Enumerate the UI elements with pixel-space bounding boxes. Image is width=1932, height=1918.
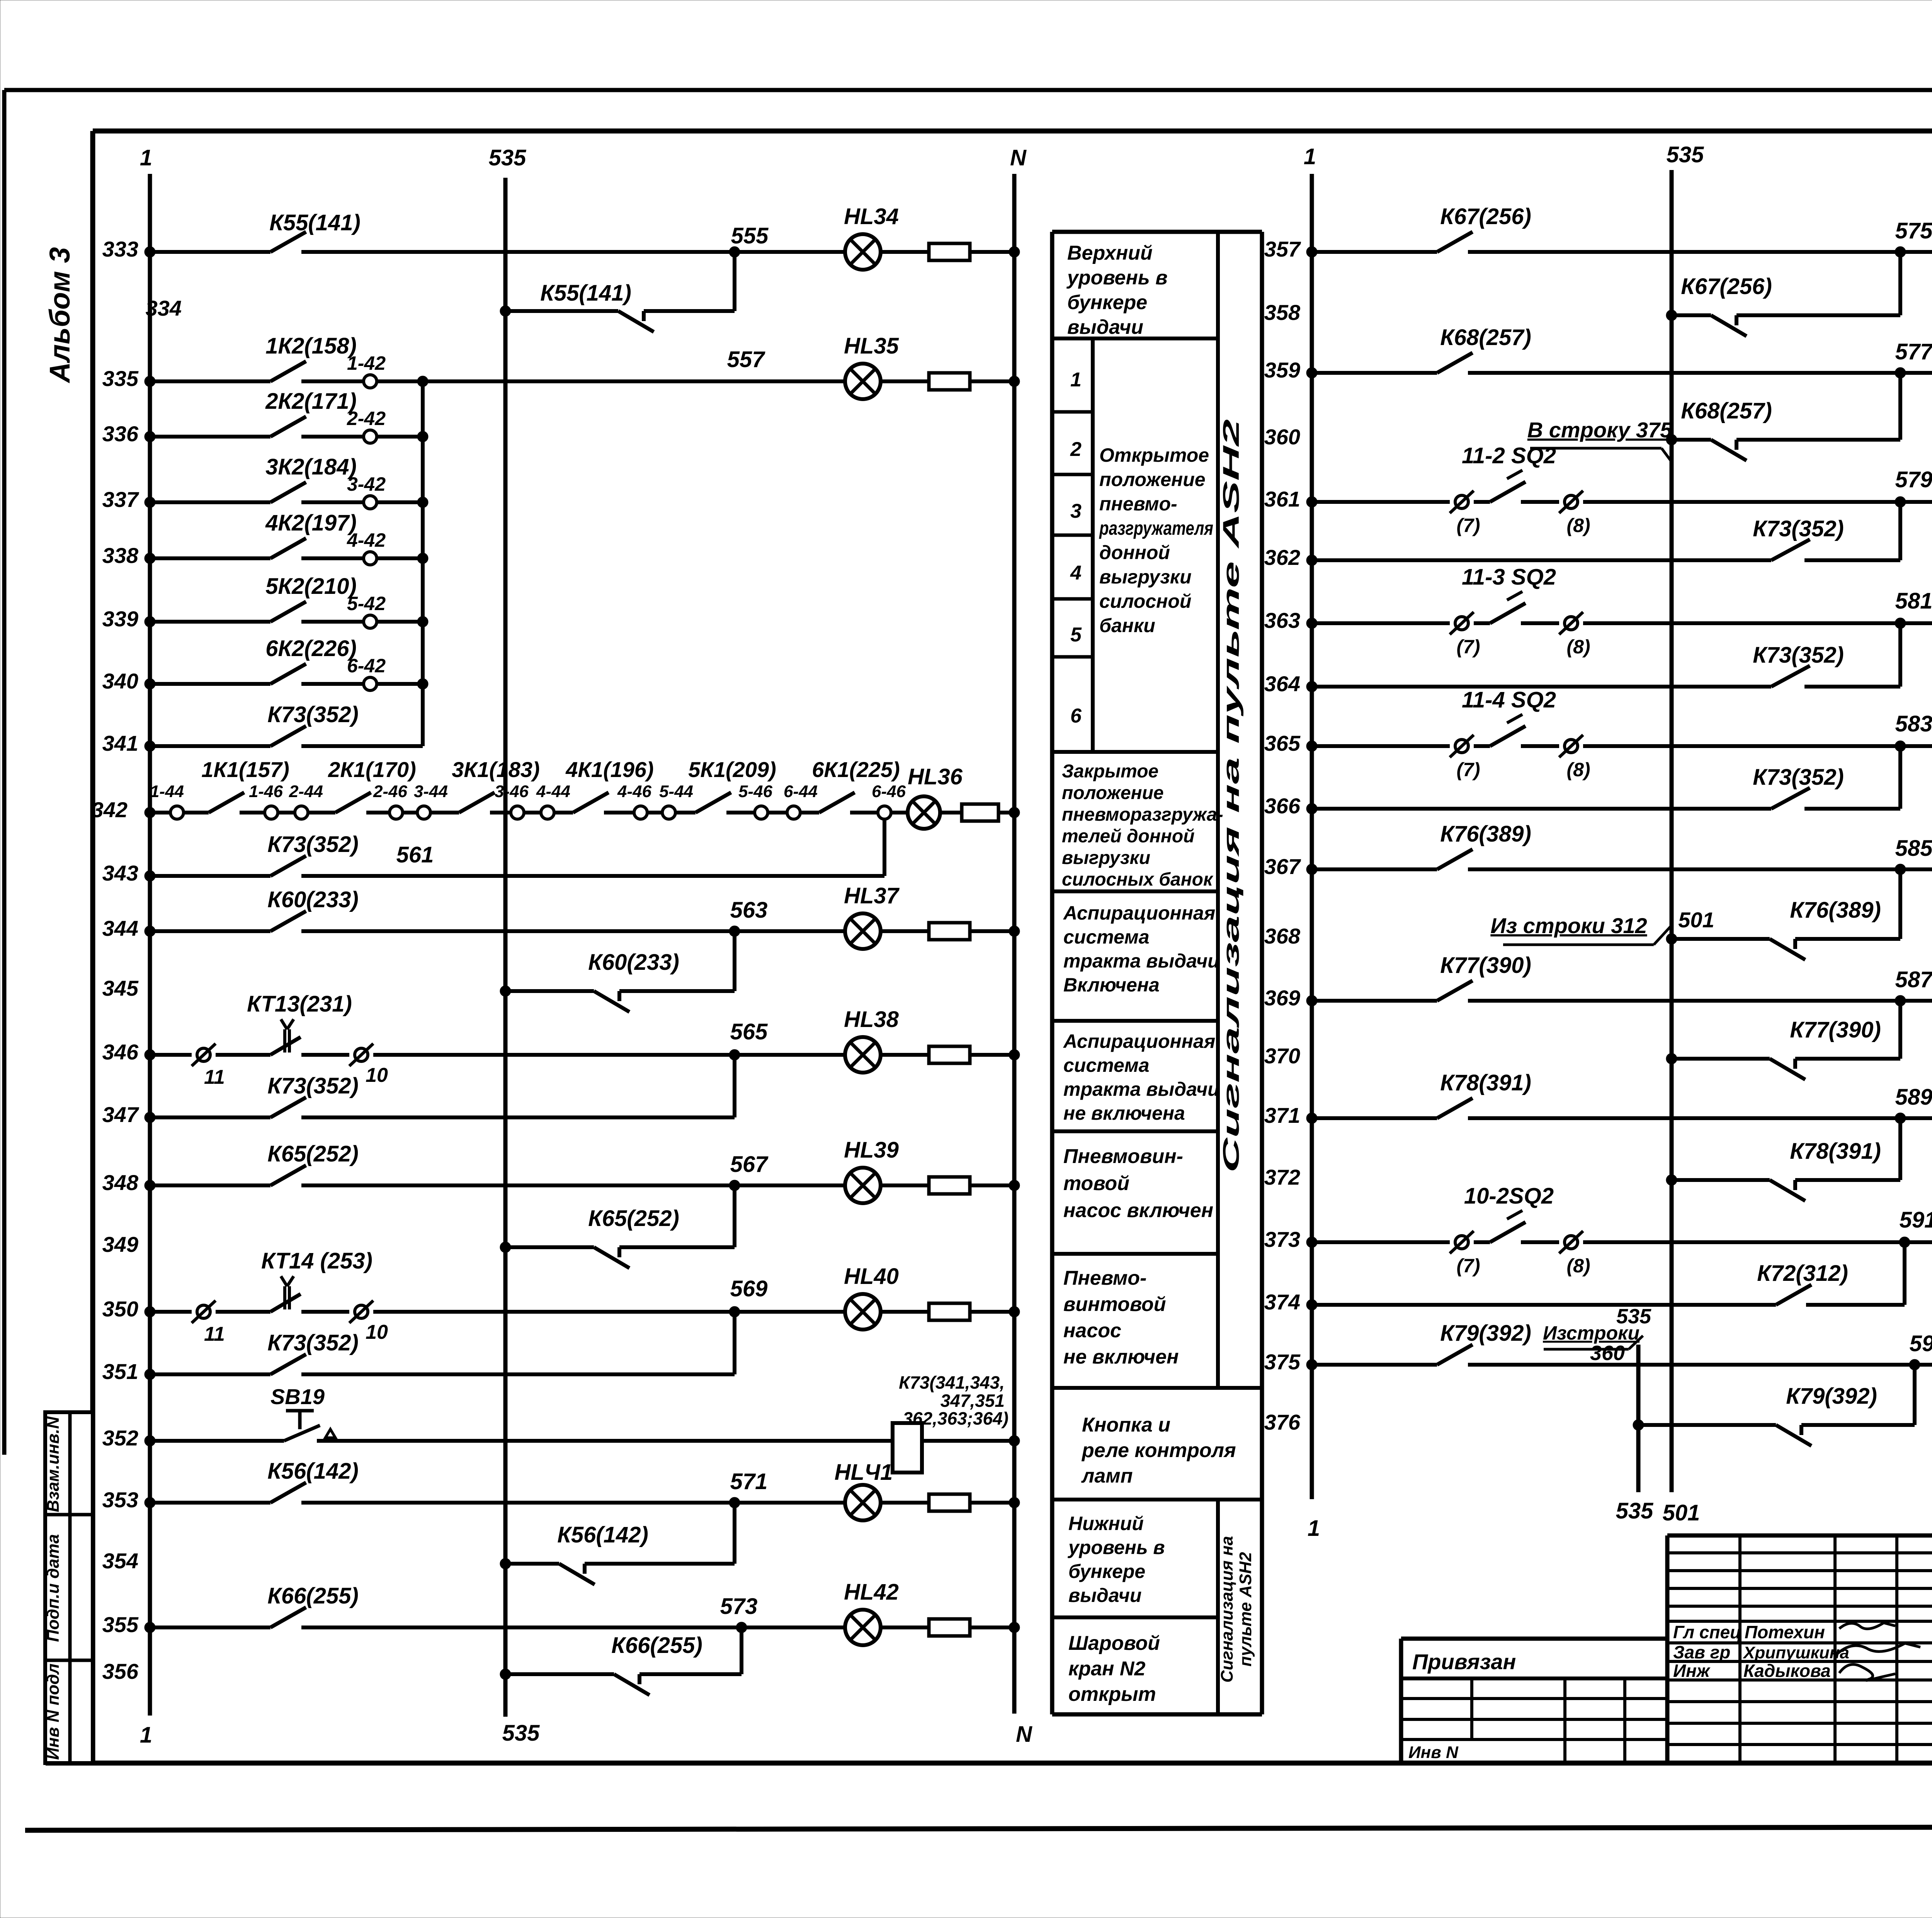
- wire lamp HL38 to resistor: [881, 1053, 929, 1057]
- limit switch 10-2SQ2 row 373: [1464, 1183, 1554, 1242]
- terminal (8) row 363: [1559, 612, 1590, 658]
- resistor row 350: [929, 1303, 970, 1320]
- terminal 1-46 row 342: [249, 782, 283, 819]
- wire row 353 to node 571: [301, 1501, 735, 1505]
- svg-text:351: 351: [102, 1359, 138, 1384]
- svg-text:4-44: 4-44: [536, 782, 570, 801]
- riser from row 354 to node 571: [733, 1503, 736, 1564]
- node 575: [1895, 218, 1932, 257]
- middle strip label signalizaciya ASN2 lower: [1218, 1536, 1255, 1682]
- svg-text:358: 358: [1264, 300, 1301, 325]
- svg-text:573: 573: [720, 1594, 758, 1619]
- wire row 335 to collector riser: [377, 376, 428, 387]
- wire row 334 branch from bus 535: [500, 306, 618, 316]
- svg-text:344: 344: [102, 916, 138, 940]
- svg-text:банки: банки: [1099, 615, 1155, 636]
- contact К76(389) row 367: [1437, 821, 1531, 869]
- svg-text:HL35: HL35: [844, 333, 899, 359]
- contact K73(352) row 347: [267, 1073, 359, 1117]
- wire row 338 to collector riser: [377, 553, 428, 564]
- contact 4К1(196) row 342: [565, 757, 653, 813]
- title block signature table grid: [1667, 1535, 1932, 1763]
- wire node 565 to lamp: [735, 1053, 845, 1057]
- wire row 333 to node 555: [301, 250, 735, 254]
- svg-text:5К2(210): 5К2(210): [265, 574, 357, 599]
- svg-text:(7): (7): [1456, 1255, 1480, 1277]
- svg-text:система: система: [1063, 926, 1150, 948]
- wire row 336 from bus 1: [145, 431, 270, 442]
- wire row 368 to riser: [1795, 937, 1900, 941]
- privyazan sub table: [1401, 1678, 1667, 1763]
- wire segment row 342: [850, 811, 878, 814]
- svg-text:10: 10: [366, 1321, 388, 1343]
- riser row 372 to row 371: [1898, 1118, 1902, 1180]
- svg-text:уровень в: уровень в: [1066, 267, 1168, 289]
- wire row 354 branch from bus 535: [500, 1558, 559, 1569]
- contact 3К1(183) row 342: [452, 757, 539, 813]
- wire resistor to bus N row 350: [970, 1306, 1020, 1317]
- wire row 347 to riser: [301, 1115, 735, 1119]
- node 585: [1895, 836, 1932, 875]
- wire row 335 to node 557: [423, 379, 735, 383]
- wire row 342 from bus 1: [145, 807, 170, 818]
- svg-text:337: 337: [102, 487, 139, 512]
- wire node 577 to lamp: [1900, 371, 1932, 375]
- svg-text:разгружателя: разгружателя: [1099, 517, 1213, 539]
- wire node 555 to lamp: [735, 250, 845, 254]
- svg-text:353: 353: [102, 1488, 138, 1512]
- wire row 371 to node 589: [1468, 1116, 1900, 1120]
- svg-text:HL38: HL38: [844, 1007, 899, 1032]
- lamp HL38: [844, 1007, 899, 1073]
- svg-text:донной: донной: [1099, 542, 1170, 563]
- svg-text:HLЧ1: HLЧ1: [835, 1460, 893, 1485]
- svg-text:336: 336: [102, 422, 139, 446]
- wire row 373 terminal 7 to contact: [1474, 1240, 1490, 1244]
- contact 2К1(170) row 342: [328, 757, 416, 813]
- wire segment between terminals row 342: [647, 811, 662, 814]
- svg-text:положение: положение: [1099, 469, 1206, 490]
- node 563: [729, 898, 767, 937]
- svg-text:4: 4: [1070, 562, 1082, 584]
- svg-text:силосной: силосной: [1099, 590, 1191, 612]
- contact К68(257) row 359: [1437, 325, 1531, 373]
- node 581: [1895, 588, 1932, 629]
- wire segment between terminals row 342: [524, 811, 541, 814]
- svg-text:(8): (8): [1566, 515, 1590, 536]
- wire segment between terminals row 342: [768, 811, 787, 814]
- svg-text:кран N2: кран N2: [1068, 1658, 1145, 1680]
- contact 2К2(171) row 336: [265, 389, 357, 437]
- terminal 6-42 row 340: [347, 655, 386, 690]
- wire row 361 terminal 7 to contact: [1474, 500, 1490, 504]
- contact K56(142) row 353: [267, 1459, 359, 1503]
- privyazan box: [1401, 1649, 1667, 1678]
- terminal 6-44 row 342: [784, 782, 818, 819]
- wire lamp HL35 to resistor: [881, 379, 929, 383]
- svg-text:535: 535: [502, 1721, 540, 1746]
- svg-text:10: 10: [366, 1064, 388, 1087]
- svg-text:К73(352): К73(352): [1753, 516, 1844, 541]
- svg-text:тракта выдачи: тракта выдачи: [1063, 950, 1219, 972]
- signature row gl spec Potekhin: [1673, 1622, 1895, 1642]
- lamp HL36: [908, 764, 963, 829]
- wire row 344 to node 563: [301, 929, 735, 933]
- wire row 365 to terminal 8: [1521, 744, 1559, 748]
- wire row 350 from bus 1: [145, 1306, 192, 1317]
- wire row 343 with net 561: [301, 842, 884, 876]
- svg-text:356: 356: [102, 1659, 139, 1683]
- wire row 340 from bus 1: [145, 678, 270, 689]
- resistor row 335: [929, 373, 970, 390]
- svg-text:352: 352: [102, 1426, 138, 1450]
- svg-text:364: 364: [1264, 672, 1300, 696]
- middle strip divider: [1216, 232, 1220, 1714]
- terminal 2-44 row 342: [289, 782, 323, 819]
- wire row 363 to terminal 8: [1521, 621, 1559, 625]
- limit switch 11-4 SQ2 row 365: [1462, 687, 1556, 746]
- title block outline: [1401, 1535, 1932, 1763]
- wire row 350 to time contact: [216, 1310, 270, 1314]
- wire lamp HL37 to resistor: [881, 929, 929, 933]
- svg-text:6-44: 6-44: [784, 782, 818, 801]
- svg-text:(8): (8): [1566, 759, 1590, 780]
- contact К78(391) bypass row 372: [1770, 1139, 1881, 1201]
- contact K65(252) row 348: [267, 1141, 359, 1185]
- svg-text:1-46: 1-46: [249, 782, 283, 801]
- svg-text:376: 376: [1264, 1410, 1301, 1434]
- wire node 583 to lamp: [1900, 744, 1932, 748]
- svg-text:К78(391): К78(391): [1440, 1070, 1531, 1095]
- svg-text:К76(389): К76(389): [1440, 821, 1531, 847]
- svg-text:369: 369: [1264, 986, 1300, 1010]
- riser row 364 to row 363: [1898, 623, 1902, 687]
- svg-text:5: 5: [1070, 624, 1082, 646]
- legend box nizhniy uroven: [1052, 1513, 1218, 1617]
- wire row 334 to riser: [644, 309, 735, 313]
- svg-text:HL36: HL36: [908, 764, 963, 789]
- riser from row 347 to node 565: [733, 1055, 736, 1117]
- node 583: [1895, 711, 1932, 752]
- wire row 346 to node 565: [373, 1053, 735, 1057]
- terminal 5-46 row 342: [738, 782, 773, 819]
- svg-text:360: 360: [1264, 425, 1300, 449]
- contact K79(392) bypass row 376: [1776, 1384, 1877, 1446]
- svg-text:5К1(209): 5К1(209): [688, 757, 776, 782]
- node 593: [1909, 1331, 1932, 1370]
- svg-text:579: 579: [1895, 467, 1932, 492]
- svg-text:4К1(196): 4К1(196): [565, 757, 653, 782]
- svg-text:пневморазгружа-: пневморазгружа-: [1062, 804, 1223, 825]
- svg-text:577: 577: [1895, 339, 1932, 364]
- svg-text:выгрузки: выгрузки: [1099, 566, 1192, 588]
- wire row 337 from bus 1: [145, 497, 270, 508]
- svg-text:пульте АSН2: пульте АSН2: [1236, 1552, 1255, 1666]
- terminal (8) row 365: [1559, 735, 1590, 780]
- svg-text:Привязан: Привязан: [1412, 1649, 1516, 1674]
- wire lamp HL36 to resistor: [940, 811, 962, 814]
- contact K66(255) bypass row 356: [611, 1633, 702, 1695]
- terminal (7) row 373: [1450, 1231, 1480, 1277]
- wire row 337 to terminal: [301, 500, 364, 504]
- wire row 351 from bus 1: [145, 1369, 270, 1380]
- wire row 375 to node 593: [1468, 1363, 1915, 1367]
- contact К67(256) row 357: [1437, 204, 1531, 252]
- contact K55(141) NO row 333: [269, 210, 361, 252]
- svg-text:выдачи: выдачи: [1067, 316, 1143, 338]
- wire row 370 to riser: [1795, 1057, 1900, 1061]
- svg-text:1-44: 1-44: [150, 782, 184, 801]
- wire node 567 to lamp: [735, 1183, 845, 1187]
- svg-text:4-46: 4-46: [617, 782, 652, 801]
- wire row 338 from bus 1: [145, 553, 270, 564]
- svg-text:положение: положение: [1062, 783, 1164, 803]
- svg-text:1: 1: [140, 145, 152, 170]
- contact 1К1(157) row 342: [201, 757, 289, 813]
- svg-text:телей донной: телей донной: [1062, 826, 1195, 847]
- svg-text:Включена: Включена: [1063, 974, 1160, 996]
- lamp HL42: [844, 1580, 899, 1645]
- wire row 355 to node 573: [301, 1626, 742, 1629]
- svg-text:10-2SQ2: 10-2SQ2: [1464, 1183, 1554, 1209]
- wire row 343 from bus 1: [145, 871, 270, 881]
- svg-text:557: 557: [727, 347, 766, 372]
- wire row 335 to terminal: [301, 379, 364, 383]
- contact К76(389) bypass row 368: [1770, 898, 1881, 960]
- wire row 361 from bus 1: [1306, 497, 1450, 507]
- relay coil K73(341,343,347,351,362,363,364): [893, 1372, 1009, 1473]
- contact К67(256) bypass row 358: [1681, 274, 1772, 336]
- wire row 369 to node 587: [1468, 999, 1900, 1003]
- svg-text:361: 361: [1264, 487, 1300, 511]
- wire row 365 terminal 7 to contact: [1474, 744, 1490, 748]
- svg-text:354: 354: [102, 1549, 138, 1573]
- svg-text:11: 11: [204, 1066, 225, 1088]
- svg-text:бункере: бункере: [1068, 1561, 1145, 1582]
- svg-text:насос: насос: [1063, 1319, 1121, 1342]
- wire segment between terminals row 342: [403, 811, 417, 814]
- svg-text:К72(312): К72(312): [1757, 1261, 1848, 1286]
- svg-text:2К1(170): 2К1(170): [328, 757, 416, 782]
- resistor row 355: [929, 1619, 970, 1636]
- svg-text:не включена: не включена: [1063, 1102, 1185, 1124]
- wire node 587 to lamp: [1900, 999, 1932, 1003]
- node 555: [729, 223, 769, 257]
- svg-text:2-46: 2-46: [373, 782, 408, 801]
- svg-text:567: 567: [730, 1152, 769, 1177]
- contact К73(352) row 364: [1753, 643, 1844, 687]
- wire resistor to bus N row 355: [970, 1622, 1020, 1633]
- svg-text:К56(142): К56(142): [557, 1522, 648, 1547]
- contact 5К1(209) row 342: [688, 757, 776, 813]
- svg-text:HL39: HL39: [844, 1138, 899, 1163]
- legend box otkrytoe polozhenie: [1052, 444, 1218, 752]
- wire row 351 to riser: [301, 1372, 735, 1376]
- riser row 358 to row 357: [1898, 252, 1902, 315]
- terminal (8) row 373: [1559, 1231, 1590, 1277]
- svg-text:силосных банок: силосных банок: [1062, 869, 1214, 890]
- terminal (7) row 363: [1450, 612, 1480, 658]
- svg-text:6-42: 6-42: [347, 655, 386, 677]
- resistor row 342: [962, 804, 998, 821]
- wire row 355 from bus 1: [145, 1622, 270, 1633]
- wire row 352 from bus 1: [145, 1435, 284, 1446]
- wire lamp HL40 to resistor: [881, 1310, 929, 1314]
- svg-text:К79(392): К79(392): [1786, 1384, 1877, 1409]
- wire row 374 to riser: [1806, 1303, 1905, 1307]
- wire row 347 from bus 1: [145, 1112, 270, 1123]
- terminal (8) row 361: [1559, 491, 1590, 536]
- svg-text:6-46: 6-46: [872, 782, 906, 801]
- wire node 575 to lamp: [1900, 250, 1932, 254]
- contact K73(352) row 341: [267, 702, 359, 746]
- svg-text:Открытое: Открытое: [1099, 444, 1209, 466]
- right bus 1 (phase): [1304, 144, 1320, 1541]
- contact K73(352) row 351: [267, 1330, 359, 1374]
- riser row 360 to row 359: [1898, 373, 1902, 440]
- wire node 591 to lamp: [1905, 1240, 1932, 1244]
- svg-text:К68(257): К68(257): [1440, 325, 1531, 350]
- wire resistor to bus N row 348: [970, 1180, 1020, 1191]
- limit switch 11-2 SQ2 row 361: [1462, 443, 1556, 502]
- svg-text:К77(390): К77(390): [1440, 953, 1531, 978]
- wire resistor to bus N row 346: [970, 1049, 1020, 1060]
- svg-text:583: 583: [1895, 711, 1932, 736]
- wire row 366 to riser: [1804, 807, 1900, 811]
- svg-text:342: 342: [92, 797, 128, 822]
- wire lamp HL42 to resistor: [881, 1626, 929, 1629]
- svg-text:К65(252): К65(252): [588, 1206, 679, 1231]
- wire row 342 to lamp: [891, 811, 908, 814]
- svg-text:1К1(157): 1К1(157): [201, 757, 289, 782]
- svg-text:340: 340: [102, 669, 138, 693]
- svg-text:370: 370: [1264, 1044, 1300, 1068]
- wire row 341 from bus 1: [145, 741, 270, 752]
- svg-text:Альбом 3: Альбом 3: [44, 247, 76, 384]
- terminal 5-42 row 339: [347, 593, 386, 628]
- svg-text:К79(392): К79(392): [1440, 1321, 1531, 1346]
- svg-text:362,363;364): 362,363;364): [903, 1408, 1009, 1428]
- svg-text:Хрипушкина: Хрипушкина: [1742, 1643, 1849, 1662]
- svg-text:3-46: 3-46: [495, 782, 529, 801]
- svg-text:Из строки 312: Из строки 312: [1490, 913, 1647, 938]
- wire row 375 from bus 1: [1306, 1359, 1437, 1370]
- legend box verhniy uroven: [1052, 242, 1218, 338]
- legend box pnevmovintovoy nasos vklyuchen: [1052, 1145, 1218, 1254]
- wire row 341 to collector riser: [301, 744, 423, 748]
- svg-text:К78(391): К78(391): [1790, 1139, 1881, 1164]
- contact K60(233) bypass row 345: [588, 950, 679, 1012]
- wire node 569 to lamp: [735, 1310, 845, 1314]
- wire node 557 to lamp: [735, 379, 845, 383]
- wire row 337 to collector riser: [377, 497, 428, 508]
- svg-text:Аспирационная: Аспирационная: [1063, 1030, 1215, 1052]
- wire row 336 to terminal: [301, 435, 364, 439]
- legend box knopka i rele: [1052, 1414, 1262, 1500]
- wire row 365 from bus 1: [1306, 741, 1450, 752]
- bottom rule line: [25, 1826, 1932, 1830]
- riser from row 356 to node 573: [740, 1627, 743, 1674]
- node 589: [1895, 1085, 1932, 1124]
- wire row 373 to node 591: [1583, 1240, 1905, 1244]
- svg-text:пневмо-: пневмо-: [1099, 493, 1177, 515]
- svg-text:333: 333: [102, 237, 138, 261]
- lamp HL39: [844, 1138, 899, 1203]
- svg-text:6: 6: [1070, 705, 1082, 727]
- wire segment after terminal 5-44: [675, 811, 696, 814]
- contact К78(391) row 371: [1437, 1070, 1531, 1118]
- svg-text:591: 591: [1900, 1207, 1932, 1233]
- svg-text:Закрытое: Закрытое: [1062, 761, 1158, 782]
- wire row 340 to terminal: [301, 682, 364, 686]
- svg-text:К60(233): К60(233): [267, 887, 359, 912]
- svg-text:565: 565: [730, 1019, 768, 1044]
- svg-text:357: 357: [1264, 237, 1301, 261]
- signature row inzh Kadykova: [1673, 1661, 1895, 1681]
- terminal 4-46 row 342: [617, 782, 652, 819]
- terminal 5-44 row 342: [659, 782, 693, 819]
- svg-text:346: 346: [102, 1040, 139, 1064]
- wire row 339 to collector riser: [377, 616, 428, 627]
- svg-text:555: 555: [731, 223, 769, 248]
- wire row 358 to riser: [1736, 313, 1900, 317]
- svg-text:347,351: 347,351: [940, 1391, 1005, 1411]
- svg-text:(8): (8): [1566, 1255, 1590, 1277]
- riser row 370 to row 369: [1898, 1001, 1902, 1059]
- svg-text:насос включен: насос включен: [1063, 1199, 1213, 1222]
- svg-text:(8): (8): [1566, 636, 1590, 658]
- wire row 349 to riser: [619, 1245, 735, 1249]
- wire row 373 to terminal 8: [1521, 1240, 1559, 1244]
- svg-text:Пневмовин-: Пневмовин-: [1063, 1145, 1183, 1168]
- svg-text:товой: товой: [1063, 1172, 1129, 1195]
- terminal 2-42 row 336: [347, 408, 386, 443]
- wire row 354 to riser: [585, 1562, 735, 1566]
- contact 3К2(184) row 337: [265, 454, 357, 502]
- svg-text:К65(252): К65(252): [267, 1141, 359, 1166]
- svg-text:535: 535: [1616, 1498, 1654, 1524]
- svg-text:350: 350: [102, 1297, 138, 1321]
- wire row 345 branch from bus 535: [500, 986, 594, 996]
- svg-text:К73(352): К73(352): [1753, 765, 1844, 790]
- svg-text:К76(389): К76(389): [1790, 898, 1881, 923]
- svg-text:4-42: 4-42: [347, 529, 386, 551]
- terminal 3-44 row 342: [414, 782, 448, 819]
- svg-text:2К2(171): 2К2(171): [265, 389, 357, 414]
- lamp HL40: [844, 1264, 899, 1330]
- wire row 372 to riser: [1795, 1178, 1900, 1182]
- wire row 344 from bus 1: [145, 926, 270, 937]
- left stamp column boxes: [45, 1412, 93, 1763]
- riser from row 334 to node 555: [733, 252, 736, 311]
- svg-text:1: 1: [1304, 144, 1316, 169]
- riser from row 349 to node 567: [733, 1185, 736, 1247]
- wire node 571 to lamp: [735, 1501, 845, 1505]
- terminal 2-46 row 342: [373, 782, 408, 819]
- wire segment row 342: [490, 811, 511, 814]
- wire row 358 branch: [1666, 310, 1711, 321]
- wire row 350 to terminal 10: [301, 1310, 349, 1314]
- terminal 1-42 row 335: [347, 352, 386, 388]
- wire row 368 branch: [1666, 933, 1770, 944]
- svg-text:363: 363: [1264, 608, 1300, 633]
- wire row 340 to collector riser: [377, 678, 428, 689]
- svg-text:501: 501: [1678, 908, 1714, 932]
- riser row 376 to node 593: [1913, 1365, 1917, 1425]
- svg-text:К56(142): К56(142): [267, 1459, 359, 1484]
- terminal 11 row 350: [192, 1301, 225, 1345]
- wire row 356 to riser: [639, 1672, 742, 1676]
